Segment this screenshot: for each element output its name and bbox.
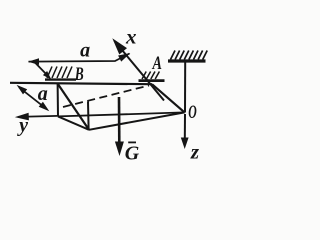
dimension a (top)	[28, 53, 130, 65]
plate edge V-O	[89, 112, 185, 129]
support hatching at B	[47, 67, 72, 79]
svg-text:a: a	[38, 83, 48, 105]
z-axis	[181, 114, 189, 149]
ceiling support hatching (rod attachment)	[171, 51, 208, 60]
plate edge P-O	[58, 112, 185, 116]
vertical stub edge to V	[87, 102, 90, 130]
x-axis	[112, 38, 164, 100]
svg-text:a: a	[80, 40, 90, 62]
G label overbar	[128, 141, 136, 143]
support baseline at B	[45, 78, 76, 80]
vertical rod from ceiling to O	[184, 63, 186, 113]
plate edge B-V	[57, 83, 89, 130]
svg-text:B: B	[74, 64, 84, 85]
wall line / plate top back edge B-A	[10, 83, 152, 84]
svg-text:O: O	[188, 102, 197, 123]
y-axis	[15, 113, 58, 121]
ceiling support baseline	[168, 59, 206, 62]
plate edge P-V	[58, 116, 89, 129]
svg-text:G: G	[125, 143, 140, 165]
dashed hidden edge	[63, 86, 149, 108]
svg-text:A: A	[152, 53, 162, 74]
dimension a (left)	[17, 85, 50, 111]
support hatching at A	[142, 72, 159, 80]
svg-text:x: x	[125, 25, 137, 49]
svg-text:y: y	[17, 115, 28, 137]
plate left vertical edge B-P	[57, 83, 59, 116]
support baseline at A	[139, 79, 165, 82]
plate edge A-O	[152, 84, 185, 112]
dimension extension stroke to B	[33, 61, 51, 80]
svg-text:z: z	[190, 139, 200, 163]
force G arrow	[115, 97, 124, 156]
